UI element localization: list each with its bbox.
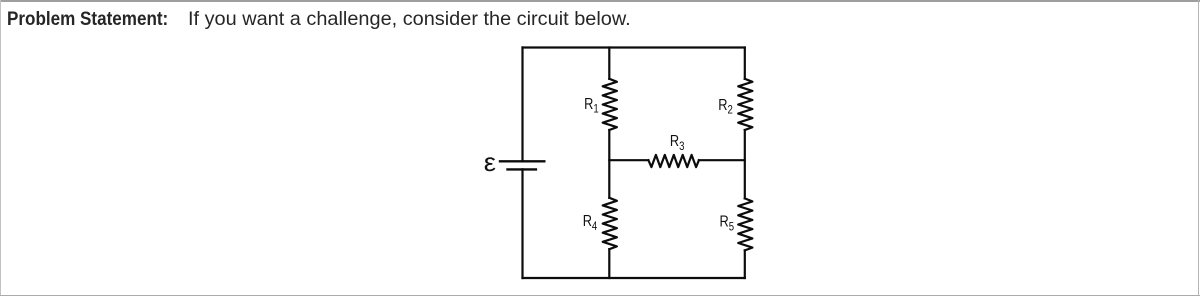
svg-text:R1: R1 — [584, 96, 599, 116]
wire middle branch middle (R1 to R4, through R3 junction) — [608, 130, 610, 198]
resistor R3 — [648, 155, 699, 167]
svg-text:ε: ε — [484, 148, 496, 177]
wire middle branch top — [608, 48, 610, 79]
page left border — [0, 0, 1, 296]
resistor R4 — [603, 198, 617, 249]
battery EMF source epsilon: long plate — [500, 160, 544, 162]
wire left lower (battery to bottom-left corner) — [521, 169, 523, 278]
wire bottom — [523, 277, 745, 279]
wire right branch middle (R2 to R5, through R3 junction) — [744, 130, 746, 198]
wire middle branch bottom — [608, 249, 610, 278]
resistor R5 — [738, 198, 752, 250]
wire left upper (battery to top-left corner) — [521, 48, 523, 162]
svg-text:R2: R2 — [718, 97, 733, 117]
resistor R1 — [603, 79, 617, 130]
title text — [188, 8, 631, 31]
page top border — [0, 0, 1200, 2]
battery EMF source epsilon: short plate — [508, 168, 536, 170]
wire R3 left lead (from middle branch) — [609, 159, 648, 161]
page bottom border — [0, 295, 1200, 297]
svg-text:R3: R3 — [670, 133, 685, 153]
wire R3 right lead (to right branch) — [699, 159, 745, 161]
wire right branch bottom — [744, 250, 746, 278]
resistor R2 — [738, 79, 752, 130]
wire right branch top — [744, 48, 746, 79]
svg-text:R5: R5 — [720, 213, 735, 233]
svg-text:R4: R4 — [583, 213, 598, 233]
page right border — [1198, 0, 1200, 296]
title bold: Problem Statement: — [7, 8, 168, 31]
wire top — [523, 46, 745, 48]
